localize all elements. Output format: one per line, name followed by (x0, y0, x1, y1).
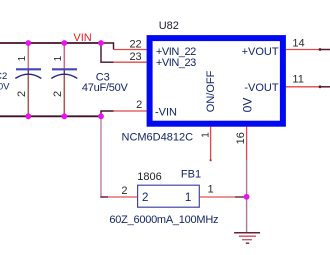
svg-text:-VOUT: -VOUT (244, 82, 279, 94)
capacitor C3 (51, 43, 77, 116)
svg-text:FB1: FB1 (181, 169, 201, 181)
wire VIN top rail (0, 42, 101, 44)
ground symbol (234, 233, 260, 244)
pin 1 lead (27, 43, 29, 69)
wire bottom rail (0, 115, 101, 117)
svg-text:60Z_6000mA_100MHz: 60Z_6000mA_100MHz (109, 214, 218, 226)
svg-text:2: 2 (121, 185, 127, 197)
svg-text:47uF/50V: 47uF/50V (0, 82, 10, 93)
curved plate (51, 74, 77, 78)
svg-text:1: 1 (17, 55, 28, 61)
wire jog from bottom rail to -VIN pin (101, 111, 114, 116)
svg-text:1: 1 (53, 55, 64, 61)
svg-text:2: 2 (136, 99, 142, 111)
svg-text:1: 1 (208, 183, 214, 195)
svg-text:2: 2 (142, 192, 148, 204)
wire from 0V pin down to FB1 row (246, 161, 248, 197)
ferrite bead FB1 (108, 185, 235, 207)
plate (16, 68, 41, 70)
wire jog from VIN rail to pin 22 (101, 43, 114, 50)
junction node bottom/-VIN (98, 113, 104, 119)
wire from bottom rail down to FB1 row (100, 116, 102, 197)
svg-text:23: 23 (129, 51, 141, 63)
svg-text:ON/OFF: ON/OFF (205, 70, 217, 112)
wire corner to FB1 pin 2 (101, 195, 108, 198)
svg-text:VIN: VIN (73, 32, 91, 44)
pin 1 stub (199, 196, 235, 198)
-VIN pin stub (114, 110, 147, 112)
svg-text:47uF/50V: 47uF/50V (82, 82, 129, 94)
pin 2 lead (27, 74, 29, 116)
0V pin stub (246, 127, 248, 161)
svg-text:22: 22 (129, 39, 141, 51)
svg-text:2: 2 (16, 91, 28, 97)
junction node VIN/U82 (98, 40, 104, 46)
wire from pin 11 to right edge (320, 86, 330, 88)
svg-text:+VIN_23: +VIN_23 (156, 57, 196, 69)
wire jog from VIN rail to pin 23 (101, 43, 114, 62)
capacitor C2 (15, 43, 41, 116)
pin 23 stub (114, 61, 147, 63)
junction node bottom/C2 (25, 113, 31, 119)
wire from pin 14 to right edge (320, 49, 330, 51)
+VOUT pin 14 stub (286, 49, 320, 51)
junction node VIN/C2 (25, 40, 31, 46)
curved plate (15, 74, 41, 78)
body (138, 185, 200, 207)
wire from FB1 pin1 to junction (235, 196, 247, 198)
U82 regulator body (150, 38, 283, 124)
svg-text:1: 1 (200, 132, 211, 138)
wire end tick (210, 159, 212, 161)
svg-text:NCM6D4812C: NCM6D4812C (122, 132, 194, 144)
plate (52, 68, 77, 70)
pin 2 stub (108, 196, 138, 198)
svg-text:11: 11 (292, 74, 303, 86)
-VOUT pin 11 stub (286, 86, 320, 88)
svg-text:0V: 0V (241, 98, 255, 113)
svg-text:+VOUT: +VOUT (242, 46, 279, 58)
svg-text:1806: 1806 (137, 171, 161, 183)
ground wire (246, 197, 248, 233)
svg-text:-VIN: -VIN (155, 106, 177, 118)
svg-text:14: 14 (292, 37, 304, 49)
junction node VIN/C3 (61, 40, 67, 46)
U82 pin 22 stub (114, 49, 147, 51)
svg-text:1: 1 (185, 192, 191, 204)
ON/OFF pin stub (210, 127, 212, 161)
pin 2 lead (63, 74, 65, 116)
junction node FB1/0V/ground (244, 194, 250, 200)
svg-text:U82: U82 (159, 20, 179, 32)
svg-text:C2: C2 (0, 71, 7, 82)
svg-text:2: 2 (52, 91, 64, 97)
pin 1 lead (63, 43, 65, 69)
junction node bottom/C3 (61, 113, 67, 119)
svg-text:16: 16 (235, 132, 247, 144)
